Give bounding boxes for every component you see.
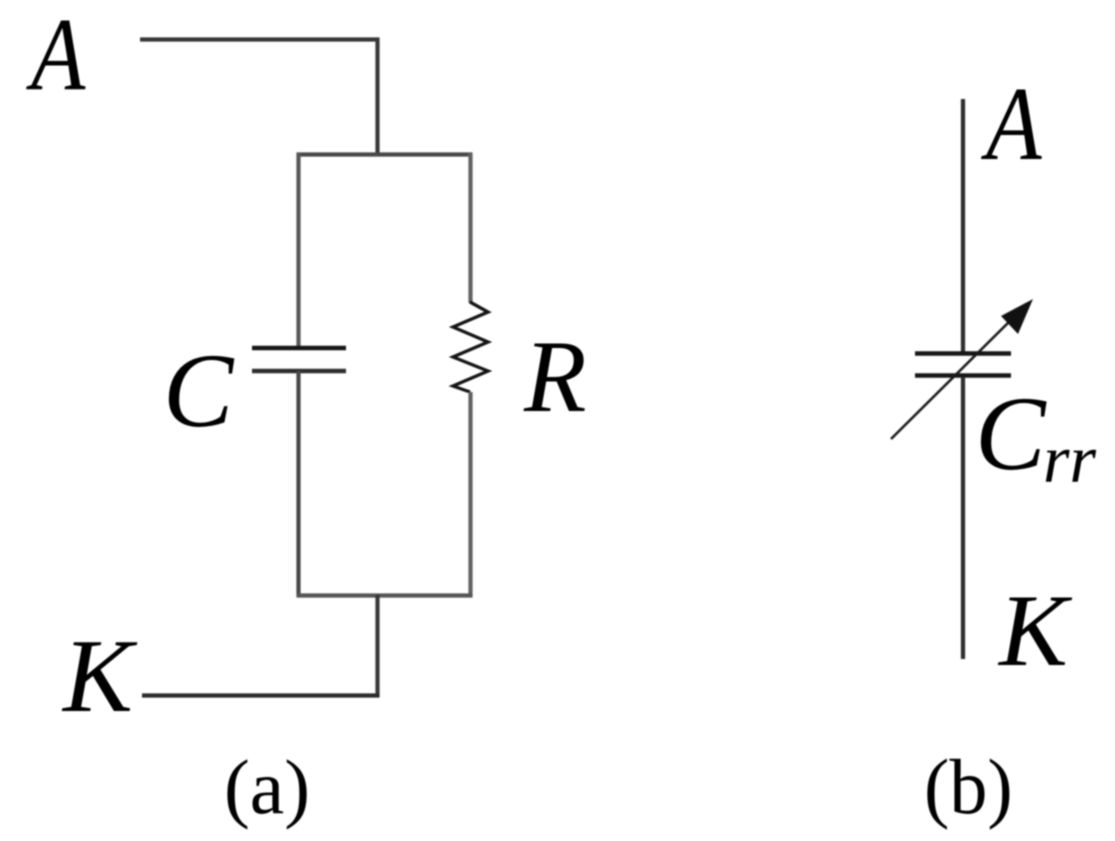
svg-text:K: K [997, 574, 1073, 688]
wire: anode lead (figure b) [961, 99, 965, 352]
variable capacitor arrow shaft [891, 314, 1017, 439]
svg-text:K: K [61, 618, 138, 734]
wire: parallel-box bottom rail [297, 593, 473, 597]
wire: cathode lead (figure b) [961, 377, 965, 659]
svg-text:C: C [163, 332, 235, 449]
svg-text:A: A [981, 66, 1043, 182]
variable capacitor Crr top plate [915, 351, 1011, 356]
resistor R zigzag [453, 302, 488, 392]
capacitor C top plate [252, 346, 346, 351]
wire: left branch upper segment (to capacitor) [296, 153, 300, 348]
svg-text:C: C [975, 375, 1047, 492]
svg-text:R: R [523, 321, 587, 434]
wire: cathode lead horizontal to K [142, 693, 380, 697]
wire: cathode lead vertical from bottom rail [375, 595, 379, 697]
svg-text:rr: rr [1043, 421, 1097, 497]
wire: left branch lower segment (capacitor to bottom rail) [296, 371, 300, 597]
svg-text:(b): (b) [924, 744, 1013, 831]
capacitor C bottom plate [252, 369, 346, 374]
wire: anode lead vertical down to box top [375, 38, 379, 156]
variable capacitor arrow head [1001, 299, 1033, 334]
wire: parallel-box top rail [297, 152, 473, 156]
wire: right branch upper segment (to resistor) [468, 153, 472, 303]
variable capacitor Crr bottom plate [915, 373, 1011, 378]
wire: right branch lower segment (resistor to bottom rail) [468, 392, 472, 597]
svg-text:(a): (a) [224, 744, 310, 830]
wire: anode lead horizontal from A [140, 37, 380, 41]
svg-text:A: A [26, 0, 86, 112]
